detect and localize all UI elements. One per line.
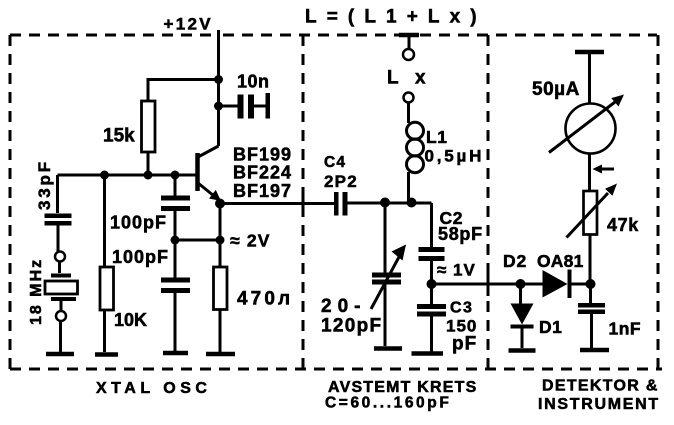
svg-text:L x: L x (387, 68, 431, 89)
ground 100pF (163, 351, 188, 356)
svg-text:100pF: 100pF (110, 213, 167, 233)
capacitor C2 58pF (419, 203, 483, 284)
svg-text:BF199: BF199 (233, 145, 292, 165)
svg-text:INSTRUMENT: INSTRUMENT (538, 396, 660, 413)
svg-text:D2: D2 (503, 251, 527, 271)
capacitor 1nF (578, 284, 641, 348)
junction rail to 10n (214, 102, 223, 111)
junction L1 (407, 198, 417, 208)
svg-text:BF197: BF197 (233, 181, 292, 201)
variable resistor 47k (567, 184, 640, 238)
junction detector output (586, 279, 596, 289)
wire terminal to meter (588, 54, 591, 104)
terminal Lx (387, 35, 431, 103)
svg-text:+12V: +12V (164, 15, 213, 34)
capacitor 33pF (35, 159, 72, 251)
diode D2 OA81 (503, 251, 591, 298)
resistor 10K (100, 175, 147, 352)
svg-text:20-: 20- (321, 296, 366, 317)
svg-text:58pF: 58pF (438, 224, 483, 244)
polarity arrow (593, 165, 615, 174)
svg-text:120pF: 120pF (321, 316, 382, 337)
svg-text:470л: 470л (237, 289, 293, 310)
meter M1 50µA (532, 79, 624, 154)
svg-text:10K: 10K (114, 310, 147, 330)
terminal meter top (575, 50, 604, 55)
svg-text:47k: 47k (607, 215, 639, 235)
capacitor C4 2P2 (324, 154, 358, 216)
svg-text:XTAL OSC: XTAL OSC (96, 380, 211, 397)
svg-text:AVSTEMT KRETS: AVSTEMT KRETS (328, 379, 478, 396)
svg-text:50µA: 50µA (532, 79, 580, 100)
svg-text:BF224: BF224 (233, 163, 292, 183)
ground 10K (95, 352, 118, 357)
wire +12V rail vertical (217, 30, 220, 146)
junction base/15k (144, 171, 153, 180)
junction base/100pF (171, 171, 180, 180)
svg-text:C=60...160pF: C=60...160pF (325, 395, 451, 412)
wire 15k to base rail (147, 152, 150, 175)
svg-text:pF: pF (452, 334, 477, 355)
capacitor C3 150pF (417, 284, 477, 355)
capacitor 100pF upper (110, 175, 190, 240)
ground 1nF (580, 348, 609, 353)
svg-text:0,5µH: 0,5µH (425, 147, 485, 166)
junction emitter/2V (216, 236, 225, 245)
svg-text:≈ 1V: ≈ 1V (437, 261, 476, 280)
junction rail to 15k (214, 75, 223, 84)
svg-text:L=(L1+Lx): L=(L1+Lx) (305, 7, 487, 28)
wire C4 to tank (348, 202, 432, 205)
ground crystal (46, 352, 74, 357)
svg-text:1nF: 1nF (609, 319, 642, 339)
svg-text:OA81: OA81 (537, 251, 584, 271)
svg-text:C3: C3 (450, 300, 473, 317)
wire meter to 47k (588, 154, 591, 192)
ground D1 (509, 348, 536, 353)
crystal X1 18 MHz (28, 252, 78, 353)
junction base/10K (100, 171, 109, 180)
svg-text:2P2: 2P2 (324, 172, 358, 191)
resistor 470л (214, 267, 294, 352)
junction 100pF midpoint (171, 236, 180, 245)
capacitor 10n (219, 72, 271, 119)
wire 47k to detector node (589, 235, 592, 285)
wire base rail (58, 174, 197, 177)
resistor 15k (142, 101, 156, 152)
wire tank to detector (432, 283, 543, 286)
section box XTAL OSC / AVSTEMT KRETS / DETEKTOR dashed borders (10, 35, 662, 369)
inductor L1 0,5µH (407, 103, 485, 204)
wire midpoint to emitter (175, 239, 220, 242)
ground varcap (374, 346, 402, 351)
svg-text:10n: 10n (237, 72, 270, 92)
svg-text:33pF: 33pF (35, 159, 54, 210)
svg-text:DETEKTOR &: DETEKTOR & (542, 378, 659, 395)
svg-text:15k: 15k (103, 126, 135, 147)
svg-text:L1: L1 (426, 127, 447, 147)
wire rail to 15k (148, 80, 219, 102)
variable capacitor 20-120pF (321, 203, 406, 346)
svg-text:18 MHz: 18 MHz (28, 258, 45, 325)
junction C2/C3/detector (427, 279, 437, 289)
capacitor 100pF lower (112, 240, 190, 352)
junction D1 (516, 279, 526, 289)
svg-text:C4: C4 (324, 154, 346, 171)
transistor Q1 BF199/BF224/BF197 (198, 145, 293, 202)
wire emitter down (219, 204, 222, 268)
diode D1 (511, 284, 563, 348)
ground C3 (412, 351, 444, 356)
junction varcap (380, 198, 390, 208)
svg-text:≈ 2V: ≈ 2V (230, 231, 271, 251)
junction emitter (215, 199, 225, 209)
svg-text:D1: D1 (539, 317, 562, 337)
wire emitter to C4 (220, 202, 334, 205)
svg-text:100pF: 100pF (112, 247, 169, 267)
ground 470 (206, 352, 235, 357)
